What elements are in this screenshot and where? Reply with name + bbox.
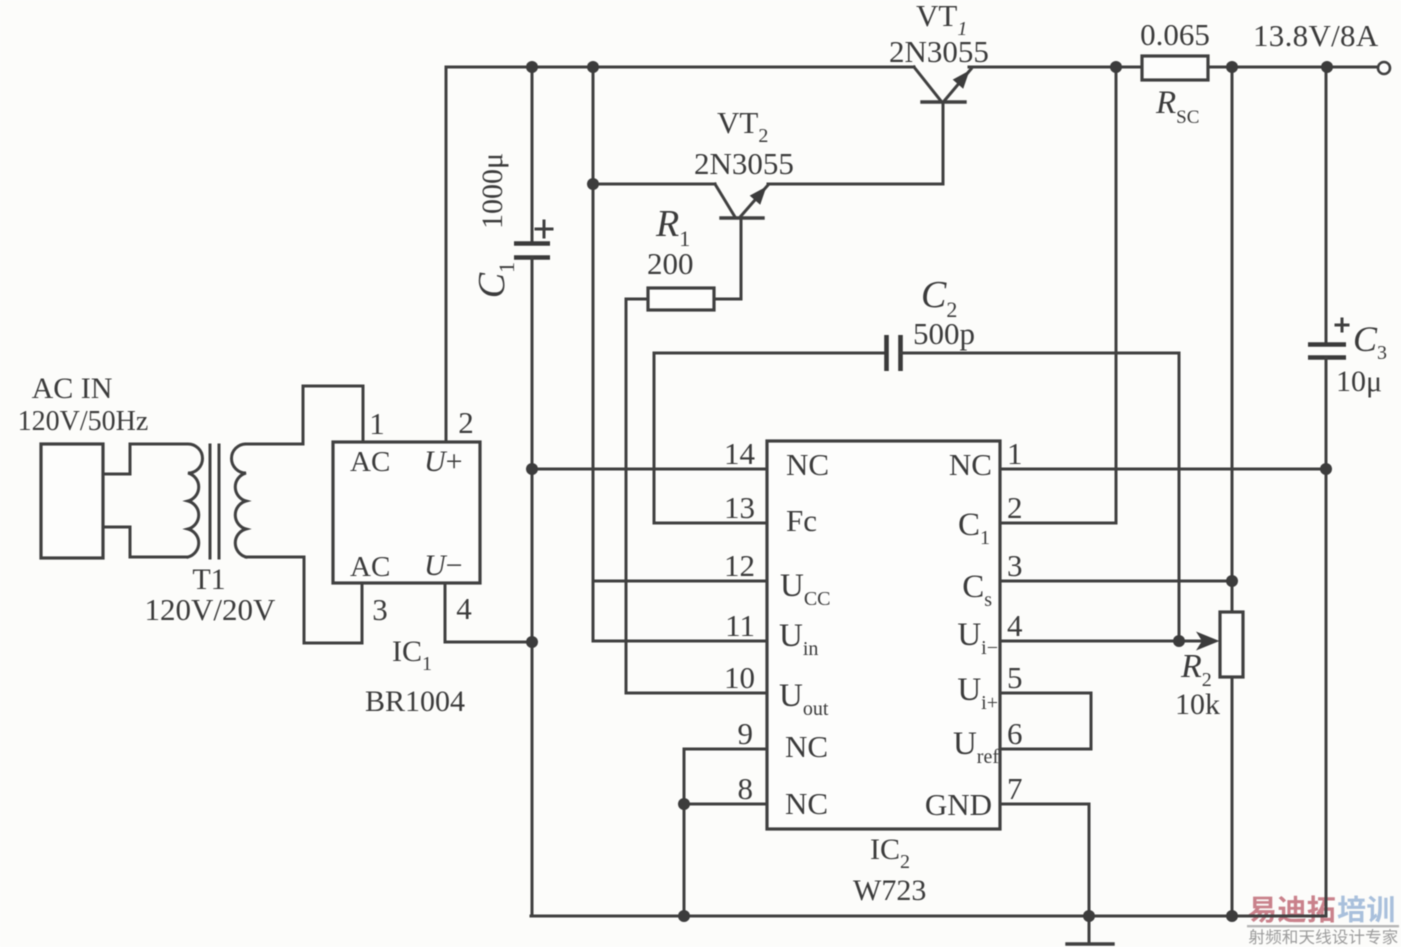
capacitor C3 xyxy=(1308,345,1346,358)
wire R2 bottom xyxy=(1231,677,1234,916)
svg-text:9: 9 xyxy=(738,716,754,751)
capacitor C1 xyxy=(514,244,550,258)
wire raw dc vertical x593 xyxy=(592,67,595,641)
watermark logo text red xyxy=(1249,895,1335,922)
wire C1 negative down to ground rail xyxy=(531,258,534,916)
svg-text:RSC: RSC xyxy=(1155,85,1199,128)
wire RSC right branch x1232 xyxy=(1231,67,1234,612)
svg-text:AC: AC xyxy=(350,551,390,583)
svg-text:3: 3 xyxy=(1007,548,1023,583)
svg-text:200: 200 xyxy=(647,246,694,281)
wire VT2 emitter to VT1 base xyxy=(768,183,943,186)
svg-text:NC: NC xyxy=(785,786,828,821)
svg-text:VT2: VT2 xyxy=(717,105,768,147)
svg-text:AC: AC xyxy=(350,446,390,478)
junction pin3 Cs node xyxy=(1226,575,1238,587)
bridge rectifier IC1 box xyxy=(333,442,480,583)
wire bridge pin2 up to positive rail xyxy=(445,67,448,442)
svg-text:10k: 10k xyxy=(1175,688,1220,721)
wire C3 lower to ground rail xyxy=(1325,358,1328,916)
svg-text:6: 6 xyxy=(1007,716,1023,751)
wire pins 9-8 vertical x684 xyxy=(683,749,686,916)
potentiometer R2 xyxy=(1220,612,1243,677)
svg-text:C3: C3 xyxy=(1353,319,1387,364)
junction raw DC rail node xyxy=(587,61,599,73)
svg-text:BR1004: BR1004 xyxy=(365,685,465,718)
svg-text:5: 5 xyxy=(1007,660,1023,695)
transformer T1 secondary winding xyxy=(232,444,247,557)
watermark subtitle xyxy=(1249,929,1398,944)
wire pin 14 xyxy=(532,468,767,471)
wire pin 13 xyxy=(654,522,767,525)
svg-text:R1: R1 xyxy=(655,203,690,251)
svg-text:Fc: Fc xyxy=(786,503,817,538)
transistor VT1 xyxy=(914,67,971,184)
wire bridge pin4 to C1 negative node xyxy=(445,583,532,642)
svg-text:U−: U− xyxy=(424,549,463,582)
junction bridge U- node xyxy=(526,636,538,648)
svg-text:2: 2 xyxy=(1007,490,1023,525)
watermark underline xyxy=(1247,925,1399,927)
wire pin 4 to wiper xyxy=(1000,640,1211,643)
wire pin 9 xyxy=(684,748,767,751)
svg-text:IC2: IC2 xyxy=(870,833,910,873)
svg-text:IC1: IC1 xyxy=(392,635,432,675)
svg-text:NC: NC xyxy=(786,447,829,482)
svg-text:W723: W723 xyxy=(853,874,926,907)
svg-text:NC: NC xyxy=(785,729,828,764)
wiper arrowhead xyxy=(1196,632,1220,651)
junction pin8 node xyxy=(678,798,690,810)
wire C3 branch upper xyxy=(1325,67,1328,344)
wire secondary top to bridge pin 1 xyxy=(246,386,363,444)
junction VT2 collector node xyxy=(587,178,599,190)
wire pin 3 xyxy=(1000,580,1232,583)
svg-text:4: 4 xyxy=(1007,608,1023,643)
capacitor C2 xyxy=(887,335,901,371)
svg-text:11: 11 xyxy=(725,608,755,643)
wire pin 12 xyxy=(593,580,767,583)
wire C1 branch upper xyxy=(531,67,534,243)
transformer T1 core xyxy=(210,445,219,558)
svg-text:12: 12 xyxy=(724,548,755,583)
wire top rail right segment xyxy=(969,66,1378,69)
svg-text:C2: C2 xyxy=(921,274,957,322)
wire pin 2 to rail xyxy=(1000,67,1116,523)
wire plug to primary bottom xyxy=(103,527,186,557)
svg-text:U+: U+ xyxy=(424,445,463,478)
svg-text:2N3055: 2N3055 xyxy=(694,146,794,181)
junction ground rail node A xyxy=(678,910,690,922)
svg-text:C1: C1 xyxy=(471,262,519,298)
wire pin 11 xyxy=(593,640,767,643)
svg-text:4: 4 xyxy=(456,591,472,626)
junction pin14 ground branch node xyxy=(526,463,538,475)
watermark logo text blue xyxy=(1338,895,1394,922)
wire VT2 collector feed xyxy=(593,183,715,186)
junction RSC left node xyxy=(1110,61,1122,73)
wire pin 1 xyxy=(1000,468,1326,471)
junction ground rail node C xyxy=(1226,910,1238,922)
wire R1 left branch xyxy=(625,299,628,693)
C3 polarity plus xyxy=(1336,319,1348,331)
svg-text:R2: R2 xyxy=(1180,648,1212,691)
resistor RSC xyxy=(1142,56,1208,80)
IC2 box xyxy=(767,441,1000,829)
wire R1 ends xyxy=(626,298,741,301)
wire plug to primary top xyxy=(103,444,186,474)
wire C2 left xyxy=(654,352,886,355)
svg-text:3: 3 xyxy=(372,592,388,627)
svg-text:14: 14 xyxy=(724,436,756,471)
wire top positive rail left segment xyxy=(446,66,914,69)
svg-text:10: 10 xyxy=(724,660,755,695)
output terminal xyxy=(1378,62,1390,74)
transistor VT2 xyxy=(715,184,768,299)
junction RSC right node xyxy=(1226,61,1238,73)
junction ground rail node B xyxy=(1083,910,1095,922)
wire Fc branch x654 xyxy=(653,353,656,523)
svg-text:1000μ: 1000μ xyxy=(476,153,509,229)
svg-text:NC: NC xyxy=(949,447,992,482)
svg-text:1: 1 xyxy=(1007,436,1023,471)
wire pins 5-6 jumper xyxy=(1000,693,1091,749)
wire ground rail xyxy=(531,915,1326,918)
svg-text:2: 2 xyxy=(458,405,474,440)
svg-text:500p: 500p xyxy=(913,316,975,351)
svg-text:2N3055: 2N3055 xyxy=(889,34,989,69)
ac plug P1 xyxy=(41,444,103,558)
junction pin4 wiper node xyxy=(1173,635,1185,647)
svg-text:120V/50Hz: 120V/50Hz xyxy=(18,406,149,437)
svg-text:0.065: 0.065 xyxy=(1140,17,1210,52)
junction C1 positive rail node xyxy=(526,61,538,73)
svg-text:13.8V/8A: 13.8V/8A xyxy=(1253,18,1379,53)
svg-text:13: 13 xyxy=(724,490,755,525)
svg-text:120V/20V: 120V/20V xyxy=(145,592,277,627)
svg-text:10μ: 10μ xyxy=(1336,365,1382,398)
junction pin1 output branch node xyxy=(1320,463,1332,475)
junction output node xyxy=(1321,61,1333,73)
wire pin 7 to ground rail xyxy=(1000,804,1089,916)
svg-text:1: 1 xyxy=(369,406,385,441)
wire secondary bottom to bridge pin 3 xyxy=(246,557,362,643)
ground symbol xyxy=(1088,916,1091,941)
wire pin 10 xyxy=(626,692,767,695)
wire C2 right xyxy=(901,352,1179,355)
transformer T1 primary winding xyxy=(188,444,203,557)
wire C2 to pin4 node x1179 xyxy=(1178,353,1181,641)
svg-text:8: 8 xyxy=(738,771,754,806)
svg-text:GND: GND xyxy=(925,787,992,822)
C1 polarity plus xyxy=(536,221,552,237)
svg-text:AC IN: AC IN xyxy=(32,372,113,405)
resistor R1 xyxy=(648,288,714,310)
svg-text:7: 7 xyxy=(1007,771,1023,806)
wire pin 8 xyxy=(684,803,767,806)
